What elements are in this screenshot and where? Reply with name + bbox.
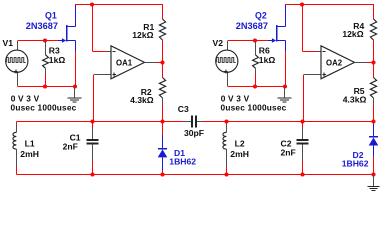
op-amp OA1 <box>111 46 145 79</box>
svg-text:V1: V1 <box>3 38 14 48</box>
svg-text:2nF: 2nF <box>281 147 296 157</box>
resistor R4 <box>373 4 375 19</box>
wire op-amp output 2 <box>367 62 374 64</box>
node bottom junction b 2 <box>283 84 287 88</box>
node bottom junction b 1 <box>73 84 77 88</box>
voltage source V1 <box>17 41 19 50</box>
diode D1 <box>162 122 164 136</box>
svg-text:30pF: 30pF <box>184 128 204 138</box>
svg-text:0usec 1000usec: 0usec 1000usec <box>221 103 287 113</box>
node bottom D1 <box>160 172 164 176</box>
wire op-amp minus feed 1 <box>92 5 94 52</box>
svg-text:Q2: Q2 <box>255 11 267 21</box>
svg-text:4.3kΩ: 4.3kΩ <box>130 95 154 105</box>
wire bottom net <box>17 174 374 176</box>
wire op-amp plus feed 1 <box>94 74 111 76</box>
wire top net 1 <box>75 4 163 6</box>
wire tank net left <box>17 121 187 123</box>
wire top net 2 <box>285 4 374 6</box>
wire source bottom net 1 <box>18 86 76 88</box>
resistor R1 <box>162 4 164 19</box>
inductor L2 <box>226 122 228 125</box>
svg-text:OA2: OA2 <box>326 58 343 67</box>
wire transistor source 2 <box>285 51 287 87</box>
wire gate net 2 <box>228 40 269 42</box>
op-amp OA2 <box>321 46 355 79</box>
svg-text:2mH: 2mH <box>230 149 249 159</box>
transistor Q1 <box>66 25 68 42</box>
node top junction 1 <box>90 2 94 6</box>
svg-text:12kΩ: 12kΩ <box>342 29 363 39</box>
svg-text:2mH: 2mH <box>20 149 39 159</box>
wire op-amp plus feed 2 <box>304 74 321 76</box>
capacitor C3 <box>183 121 191 123</box>
svg-text:1kΩ: 1kΩ <box>49 55 66 65</box>
ground source 2 <box>284 87 286 98</box>
capacitor C1 <box>92 122 94 128</box>
resistor R5 <box>373 63 375 78</box>
svg-text:4.3kΩ: 4.3kΩ <box>343 95 367 105</box>
node output junction 1 <box>160 60 164 64</box>
node bottom junction a 2 <box>253 84 257 88</box>
svg-text:1BH62: 1BH62 <box>169 157 196 167</box>
wire transistor source 1 <box>75 51 77 87</box>
voltage source V2 <box>227 41 229 50</box>
svg-text:OA1: OA1 <box>116 58 133 67</box>
svg-text:1kΩ: 1kΩ <box>259 55 276 65</box>
ground source 1 <box>74 87 76 98</box>
transistor Q2 <box>276 25 278 42</box>
node bottom C1 <box>90 172 94 176</box>
diode D2 <box>373 122 375 125</box>
svg-text:2N3687: 2N3687 <box>236 21 268 31</box>
node gate junction 2 <box>253 38 257 42</box>
node bottom C2 <box>300 172 304 176</box>
capacitor C2 <box>302 122 304 128</box>
node bottom L2 <box>224 172 228 176</box>
wire tank net right <box>201 121 374 123</box>
svg-text:V2: V2 <box>213 38 224 48</box>
node output junction 2 <box>371 60 375 64</box>
node top junction 2 <box>300 2 304 6</box>
svg-text:12kΩ: 12kΩ <box>132 30 153 40</box>
resistor R6 <box>255 41 257 55</box>
node tank junction C2 <box>300 119 304 123</box>
svg-text:2nF: 2nF <box>63 142 78 152</box>
svg-text:2N3687: 2N3687 <box>26 21 58 31</box>
wire op-amp output 1 <box>157 62 163 64</box>
resistor R2 <box>162 63 164 78</box>
node gate junction 1 <box>43 38 47 42</box>
node tank junction rail2 <box>371 119 375 123</box>
svg-text:L1: L1 <box>25 139 35 149</box>
node tank junction rail1 <box>160 119 164 123</box>
svg-text:C3: C3 <box>178 104 189 114</box>
inductor L1 <box>16 122 18 125</box>
wire source bottom net 2 <box>228 86 286 88</box>
wire op-amp minus feed 2 <box>302 5 304 52</box>
ground bottom right <box>373 175 375 186</box>
svg-text:Q1: Q1 <box>45 11 57 21</box>
node bottom junction a 1 <box>43 84 47 88</box>
svg-text:1BH62: 1BH62 <box>342 158 369 168</box>
node tank junction L2 <box>224 119 228 123</box>
node tank junction C1 <box>90 119 94 123</box>
svg-text:L2: L2 <box>235 139 245 149</box>
wire gate net 1 <box>18 40 59 42</box>
svg-text:0usec 1000usec: 0usec 1000usec <box>11 103 77 113</box>
node bottom D2 <box>371 172 375 176</box>
resistor R3 <box>45 41 47 55</box>
